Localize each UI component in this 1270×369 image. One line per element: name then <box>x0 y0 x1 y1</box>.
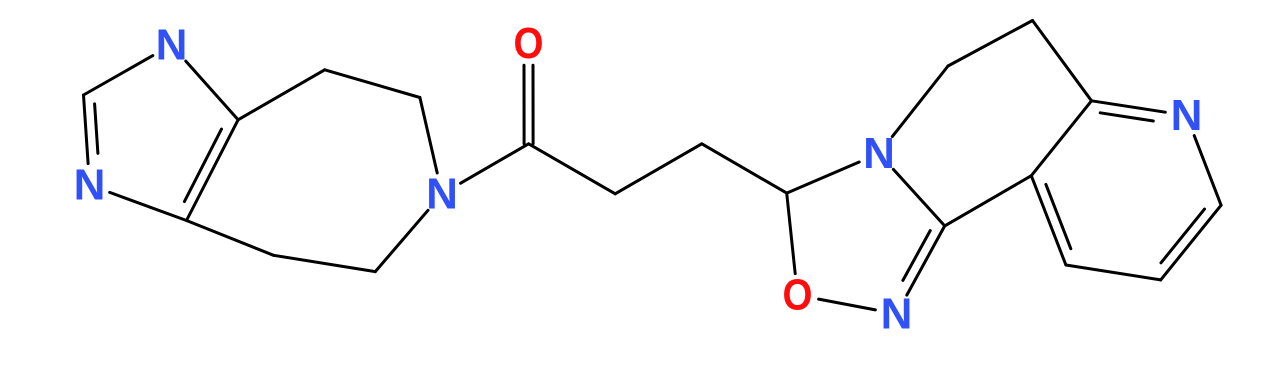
bond C10-C11 <box>615 144 702 194</box>
bond N6-C8 <box>461 144 529 183</box>
bond B-N6 <box>420 98 437 174</box>
bond C6p-C5p inner <box>1161 209 1205 263</box>
bond C7-D <box>274 255 376 271</box>
svg-text:N: N <box>1171 91 1203 140</box>
bond N2x-C3x inner <box>903 231 930 281</box>
bond V1-V2 <box>948 21 1033 67</box>
bond C8-C10 <box>529 144 616 194</box>
bond N3i-C4i <box>110 192 187 220</box>
bond C2i-N3i <box>84 95 89 164</box>
bond C3x-N4x <box>893 169 944 226</box>
bond C5i-N1i <box>186 61 238 120</box>
bond N4x-V1 <box>892 66 948 137</box>
bond C2p-C3p <box>1031 101 1091 176</box>
bond C4p-C3p inner <box>1046 184 1071 248</box>
bond C2p-N1p inner <box>1100 113 1153 121</box>
svg-text:N: N <box>156 21 188 70</box>
bond C2p-N1p <box>1092 101 1166 112</box>
bond C3p-C3x <box>945 176 1032 226</box>
bond N4x-C5x <box>787 162 860 193</box>
bond N1p-C6p <box>1194 136 1221 206</box>
bond C5p-C4p <box>1066 265 1161 280</box>
bond C6p-C5p <box>1161 205 1221 280</box>
bond C11-C5x <box>702 144 787 193</box>
bond N1i-C2i <box>84 56 153 95</box>
bond C4p-C3p <box>1031 176 1066 265</box>
bond C8-O9 line a <box>523 65 526 144</box>
bond D-C4i <box>187 221 274 256</box>
bond C5x-O1x <box>787 193 796 274</box>
svg-text:O: O <box>514 19 544 68</box>
bond N6-C7 <box>375 210 428 271</box>
bond V2-C2p <box>1033 21 1092 101</box>
bond A-B <box>325 70 420 98</box>
bond N2x-C3x <box>907 226 945 295</box>
bond C4i-C5i inner <box>184 129 221 202</box>
svg-text:N: N <box>74 161 106 210</box>
bond C2i-N3i inner <box>95 104 98 153</box>
bond C5i-A <box>238 70 325 120</box>
bond O1x-N2x <box>819 299 876 310</box>
bond C4i-C5i <box>187 120 239 221</box>
svg-text:O: O <box>783 271 813 320</box>
svg-text:N: N <box>863 129 895 178</box>
svg-text:N: N <box>426 170 458 219</box>
bond C8-O9 line b <box>532 65 535 144</box>
svg-text:N: N <box>881 290 913 339</box>
